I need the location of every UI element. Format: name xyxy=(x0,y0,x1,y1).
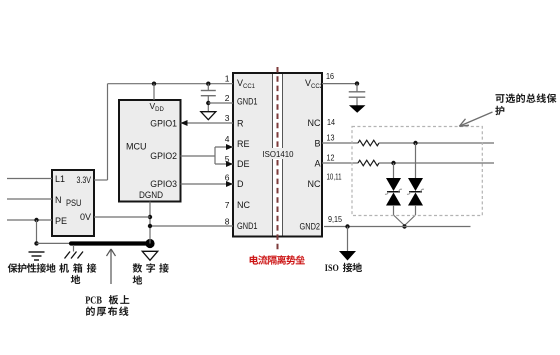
svg-text:4: 4 xyxy=(225,134,230,144)
svg-text:A: A xyxy=(314,158,320,168)
svg-text:16: 16 xyxy=(326,71,334,81)
svg-text:N: N xyxy=(55,195,62,205)
svg-text:DE: DE xyxy=(237,159,250,169)
svg-text:ISO: ISO xyxy=(325,264,339,274)
svg-text:7: 7 xyxy=(225,200,230,210)
svg-text:ISO1410: ISO1410 xyxy=(263,149,294,159)
svg-text:8: 8 xyxy=(225,217,230,227)
svg-text:3: 3 xyxy=(225,113,230,123)
svg-text:PE: PE xyxy=(55,216,67,226)
svg-text:1: 1 xyxy=(225,74,230,84)
svg-text:B: B xyxy=(314,139,320,149)
svg-text:14: 14 xyxy=(327,117,335,127)
svg-text:GPIO1: GPIO1 xyxy=(150,119,177,129)
svg-text:10,11: 10,11 xyxy=(327,172,342,182)
svg-text:RE: RE xyxy=(237,139,250,149)
svg-text:DGND: DGND xyxy=(139,190,163,200)
svg-text:PCB: PCB xyxy=(85,296,102,307)
svg-text:13: 13 xyxy=(327,133,335,143)
svg-text:12: 12 xyxy=(327,153,335,163)
svg-text:L1: L1 xyxy=(55,174,65,184)
svg-text:9,15: 9,15 xyxy=(328,214,342,224)
svg-text:GND1: GND1 xyxy=(237,221,258,231)
svg-text:GPIO3: GPIO3 xyxy=(150,179,177,189)
svg-text:R: R xyxy=(237,119,244,129)
svg-text:GND2: GND2 xyxy=(300,222,321,232)
svg-text:MCU: MCU xyxy=(126,142,147,152)
svg-text:NC: NC xyxy=(308,179,321,189)
svg-text:2: 2 xyxy=(225,93,230,103)
svg-text:6: 6 xyxy=(225,173,230,183)
svg-text:0V: 0V xyxy=(80,212,91,222)
svg-text:GPIO2: GPIO2 xyxy=(150,151,177,161)
svg-text:PSU: PSU xyxy=(66,198,82,208)
svg-text:NC: NC xyxy=(308,118,321,128)
svg-text:NC: NC xyxy=(237,200,250,210)
svg-text:3.3V: 3.3V xyxy=(77,175,92,185)
svg-text:GND1: GND1 xyxy=(237,97,258,107)
svg-text:D: D xyxy=(237,179,244,189)
